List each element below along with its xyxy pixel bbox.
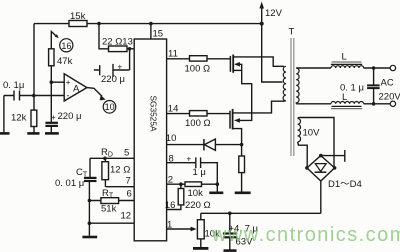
svg-text:2: 2 (168, 175, 173, 186)
capacitor 4.7u 63V (229, 213, 231, 250)
wire input termination (3, 96, 5, 134)
svg-text:1: 1 (167, 220, 172, 231)
node junction 12V (260, 22, 264, 26)
wire pin7 (105, 186, 134, 188)
wire top 12V rail (34, 23, 262, 25)
op-amp U1 SG3525A (134, 39, 166, 241)
svg-text:7: 7 (126, 176, 131, 187)
wire left vertical feedback (33, 24, 35, 96)
inductor L upper (331, 66, 364, 68)
svg-text:12: 12 (121, 211, 132, 222)
node 16 circle (60, 39, 73, 52)
svg-text:16: 16 (165, 200, 176, 211)
node junction opamp plus (50, 80, 54, 84)
svg-text:AC: AC (381, 78, 394, 89)
wire output top rail (296, 67, 390, 69)
resistor 10k pin2 (185, 182, 202, 187)
resistor RD 12ohm (90, 158, 134, 186)
svg-text:10: 10 (166, 133, 177, 144)
svg-text:+: + (118, 63, 123, 72)
resistor 220ohm pin16 (167, 184, 181, 209)
ground bar 220u (45, 132, 59, 135)
bridge rectifier D1-D4 (307, 156, 335, 181)
node junction input (32, 94, 36, 98)
resistor 100ohm lower (167, 113, 230, 115)
svg-text:10k: 10k (188, 188, 204, 199)
svg-text:L: L (342, 52, 347, 63)
ground snubber (235, 192, 251, 195)
svg-text:-: - (67, 91, 70, 101)
capacitor 1u pin8 (167, 157, 218, 184)
op-amp A (64, 74, 87, 101)
svg-text:15k: 15k (70, 11, 86, 22)
svg-text:+: + (51, 113, 56, 122)
svg-text:220 Ω: 220 Ω (185, 200, 211, 211)
resistor RT 51k (89, 200, 134, 202)
svg-text:51k: 51k (101, 204, 117, 215)
svg-text:15: 15 (153, 29, 164, 40)
svg-text:100 Ω: 100 Ω (185, 118, 211, 129)
svg-text:0. 1 μ: 0. 1 μ (340, 83, 364, 94)
svg-text:8: 8 (169, 154, 174, 165)
svg-text:220V: 220V (379, 92, 400, 103)
resistor 22ohm (99, 24, 134, 49)
ground bar input (0, 132, 10, 135)
wire 10V top lead (298, 118, 334, 168)
capacitor 220u top (94, 49, 130, 77)
resistor 100ohm upper (167, 58, 231, 60)
ground bar 12k (27, 132, 39, 135)
svg-text:D1～D4: D1～D4 (328, 179, 362, 190)
inductor L lower (331, 101, 364, 103)
svg-text:12V: 12V (265, 8, 283, 19)
node junction 22ohm tap (97, 22, 101, 26)
svg-text:47k: 47k (57, 56, 73, 67)
svg-text:SG3525A: SG3525A (149, 96, 159, 132)
svg-text:T: T (289, 27, 295, 38)
resistor 12k (33, 96, 35, 134)
transformer secondary winding (296, 68, 299, 104)
ground 4.7u (224, 249, 237, 252)
svg-text:L: L (342, 92, 347, 103)
svg-text:12k: 12k (11, 113, 27, 124)
svg-text:www.cntronics.com: www.cntronics.com (211, 224, 400, 246)
ground 10k (209, 192, 223, 195)
wire pin15 (150, 24, 152, 39)
capacitor 0.1u input (4, 91, 64, 101)
resistor snubber (241, 145, 243, 192)
transistor Q2 MOSFET lower (229, 111, 231, 129)
ground pot (193, 247, 208, 250)
terminal AC top (390, 65, 395, 70)
svg-text:11: 11 (168, 49, 178, 60)
wire negative rail (201, 212, 321, 214)
svg-text:+: + (187, 155, 192, 164)
diode pin10 (167, 144, 242, 146)
ground stub bridge plus (321, 150, 345, 162)
node junction pin13 (128, 47, 132, 51)
wire output bottom rail (296, 103, 390, 105)
transformer primary winding (283, 66, 286, 101)
svg-text:+: + (66, 78, 71, 87)
svg-text:220 μ: 220 μ (58, 111, 82, 122)
svg-text:6: 6 (127, 189, 132, 200)
svg-text:16: 16 (61, 41, 71, 51)
node 10 circle (103, 101, 116, 114)
capacitor 220u lower-left (50, 82, 52, 133)
svg-text:100 Ω: 100 Ω (185, 64, 211, 75)
svg-text:12 Ω: 12 Ω (110, 165, 130, 176)
ground RT (82, 236, 97, 239)
svg-text:A: A (73, 84, 80, 95)
svg-text:10V: 10V (303, 128, 321, 139)
potentiometer 47k (51, 32, 56, 49)
capacitor 0.1u output (373, 68, 375, 104)
svg-text:14: 14 (168, 103, 179, 114)
svg-text:22 Ω13: 22 Ω13 (102, 37, 133, 48)
terminal AC bottom (390, 101, 395, 106)
node junction pin15 tap (149, 22, 153, 26)
wire pin12 (89, 201, 134, 236)
wire bridge minus (320, 181, 322, 213)
transformer T core (291, 38, 294, 156)
svg-text:0. 01 μ: 0. 01 μ (55, 178, 84, 189)
svg-text:1 μ: 1 μ (193, 167, 206, 178)
transformer 10V winding (298, 119, 301, 142)
svg-text:220 μ: 220 μ (101, 74, 125, 85)
svg-text:0. 1μ: 0. 1μ (3, 80, 24, 91)
wire 10V bottom lead (298, 142, 308, 168)
wire pin1 arrow (167, 228, 192, 230)
capacitor CT 0.01u (88, 158, 91, 200)
supply 12V arrow (262, 7, 283, 82)
svg-text:10: 10 (105, 102, 115, 112)
svg-text:5: 5 (124, 148, 129, 159)
transistor Q1 MOSFET upper (229, 56, 231, 72)
wire pin2 (167, 183, 185, 185)
resistor 15k (69, 21, 87, 27)
wire to opamp plus (51, 81, 64, 83)
potentiometer 10k pin1 (200, 213, 202, 247)
